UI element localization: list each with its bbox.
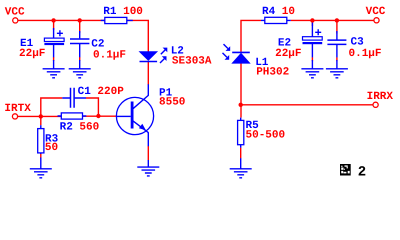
svg-text:VCC: VCC xyxy=(366,6,386,18)
resistor R5 xyxy=(238,118,244,148)
wire E2 top xyxy=(311,20,313,26)
junction dot rail C3 xyxy=(335,18,339,22)
ground under transistor xyxy=(137,160,159,176)
svg-text:IRRX: IRRX xyxy=(367,91,394,103)
resistor R4 xyxy=(261,17,291,23)
label IRTX xyxy=(4,103,31,115)
capacitor C3 xyxy=(327,31,346,57)
wire E2 bottom to ground xyxy=(311,57,313,61)
label C1 xyxy=(78,86,92,98)
label VCC left xyxy=(5,6,25,18)
junction dot IRTX R3 xyxy=(39,114,43,118)
svg-text:220P: 220P xyxy=(97,86,124,98)
wire node IRTX down to R3 xyxy=(40,116,42,125)
wire transistor emitter to ground xyxy=(147,146,149,160)
wire R5 to ground xyxy=(240,148,242,159)
label C3 xyxy=(351,37,365,49)
svg-text:22µF: 22µF xyxy=(275,48,301,60)
wire C3 bottom to ground xyxy=(336,57,338,61)
ground under C2 xyxy=(69,60,91,78)
label R2 xyxy=(60,121,73,133)
wire IRTX to R2 xyxy=(18,115,62,117)
svg-text:2: 2 xyxy=(358,165,366,181)
junction dot L1 R5 xyxy=(239,103,243,107)
value 560 xyxy=(79,121,99,133)
value 0.1uF right xyxy=(349,48,382,60)
wire LED L2 to transistor xyxy=(147,62,149,85)
wire R2 to base xyxy=(83,115,117,117)
capacitor C1 xyxy=(62,88,86,108)
ground under R3 xyxy=(30,158,52,178)
wire C3 top xyxy=(336,20,338,33)
value 100 xyxy=(123,6,143,18)
svg-text:0.1µF: 0.1µF xyxy=(349,48,382,60)
svg-text:VCC: VCC xyxy=(5,6,25,18)
capacitor E1 xyxy=(44,28,64,57)
resistor R2 xyxy=(58,113,87,119)
capacitor C2 xyxy=(70,31,89,57)
terminal IRTX xyxy=(12,114,17,119)
svg-text:0.1µF: 0.1µF xyxy=(93,49,126,61)
label L1 xyxy=(255,57,269,69)
label R4 xyxy=(262,6,276,18)
svg-text:50-500: 50-500 xyxy=(246,130,286,142)
value PH302 xyxy=(256,67,289,79)
label E1 xyxy=(20,38,34,50)
junction dot R2 base xyxy=(96,114,100,118)
figure label tu 2 xyxy=(340,164,366,181)
LED L2 xyxy=(140,48,168,63)
svg-text:100: 100 xyxy=(123,6,143,18)
ground under E2 xyxy=(301,60,323,78)
photodiode L1 xyxy=(223,44,250,63)
resistor R1 xyxy=(101,17,133,23)
value 220P xyxy=(97,86,124,98)
wire L1 top to rail xyxy=(241,20,261,51)
label E2 xyxy=(278,38,291,50)
svg-text:22µF: 22µF xyxy=(19,48,45,60)
label R1 xyxy=(103,6,117,18)
wire R3 to ground xyxy=(40,153,42,159)
wire C2 top xyxy=(79,20,81,33)
svg-text:R2: R2 xyxy=(60,121,73,133)
wire C1 branch left xyxy=(41,98,63,116)
value 8550 xyxy=(159,97,185,109)
value 22uF xyxy=(19,48,45,60)
svg-text:8550: 8550 xyxy=(159,97,185,109)
resistor R3 xyxy=(38,125,44,154)
svg-text:10: 10 xyxy=(282,6,295,18)
value 0.1uF xyxy=(93,49,126,61)
svg-text:IRTX: IRTX xyxy=(4,103,31,115)
value 22uF right xyxy=(275,48,301,60)
wire C2 bottom to ground xyxy=(79,57,81,61)
terminal VCC left xyxy=(13,18,18,23)
wire L1 to node and R5 xyxy=(240,63,242,117)
wire C1 branch right xyxy=(86,98,98,116)
svg-text:560: 560 xyxy=(79,121,99,133)
junction dot rail E2 xyxy=(310,18,314,22)
label L2 xyxy=(171,46,184,58)
label IRRX xyxy=(367,91,394,103)
label R5 xyxy=(246,120,260,132)
label R3 xyxy=(45,134,59,146)
value 50 xyxy=(45,142,58,154)
junction dot rail E1 xyxy=(51,18,55,22)
ground under E1 xyxy=(43,60,65,78)
wire E1 bottom to ground xyxy=(53,57,55,61)
transistor P1 xyxy=(116,84,153,146)
terminal VCC right xyxy=(374,18,379,23)
wire top rail right xyxy=(291,19,374,21)
value 10 xyxy=(282,6,295,18)
svg-text:50: 50 xyxy=(45,142,58,154)
svg-text:PH302: PH302 xyxy=(256,67,289,79)
terminal IRRX xyxy=(373,102,378,107)
label P1 xyxy=(159,88,173,100)
label VCC right xyxy=(366,6,386,18)
capacitor E2 xyxy=(303,22,323,57)
wire node to IRRX xyxy=(241,104,373,106)
wire top rail left xyxy=(18,19,105,21)
svg-text:C1: C1 xyxy=(78,86,92,98)
wire E1 top xyxy=(53,20,55,30)
junction dot rail C2 xyxy=(78,18,82,22)
ground under R5 xyxy=(230,158,252,178)
value SE303A xyxy=(172,55,212,67)
svg-text:SE303A: SE303A xyxy=(172,55,212,67)
label C2 xyxy=(91,38,104,50)
svg-text:R1: R1 xyxy=(103,6,117,18)
svg-text:C3: C3 xyxy=(351,37,365,49)
svg-text:R4: R4 xyxy=(262,6,276,18)
wire R1 right to LED L2 xyxy=(127,20,149,52)
ground under C3 xyxy=(326,60,348,78)
value 50-500 xyxy=(246,130,286,142)
